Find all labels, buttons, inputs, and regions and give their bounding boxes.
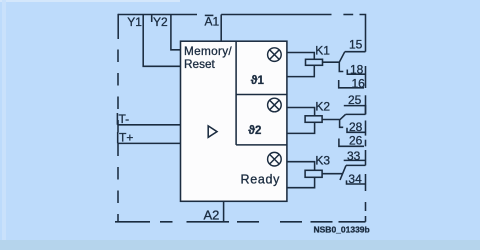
svg-text:18: 18 [350, 63, 364, 77]
svg-text:28: 28 [349, 120, 363, 134]
svg-text:15: 15 [349, 37, 363, 51]
svg-text:34: 34 [348, 172, 362, 186]
svg-text:A2: A2 [204, 207, 220, 222]
svg-text:Ready: Ready [241, 173, 281, 187]
svg-text:T-: T- [119, 112, 130, 126]
svg-text:25: 25 [348, 93, 362, 107]
svg-text:A1: A1 [205, 15, 220, 29]
svg-text:NSB0_01339b: NSB0_01339b [314, 225, 370, 235]
svg-text:K2: K2 [315, 100, 330, 114]
svg-text:T+: T+ [119, 131, 133, 145]
svg-text:K1: K1 [315, 43, 330, 57]
svg-text:Reset: Reset [184, 57, 216, 71]
svg-text:33: 33 [347, 149, 361, 163]
svg-text:ϑ2: ϑ2 [248, 125, 261, 137]
svg-text:Y1: Y1 [127, 15, 142, 29]
svg-text:ϑ1: ϑ1 [251, 75, 265, 87]
svg-text:Y2: Y2 [153, 15, 168, 29]
svg-text:26: 26 [349, 133, 363, 147]
svg-text:16: 16 [352, 76, 366, 90]
svg-text:K3: K3 [315, 154, 330, 168]
